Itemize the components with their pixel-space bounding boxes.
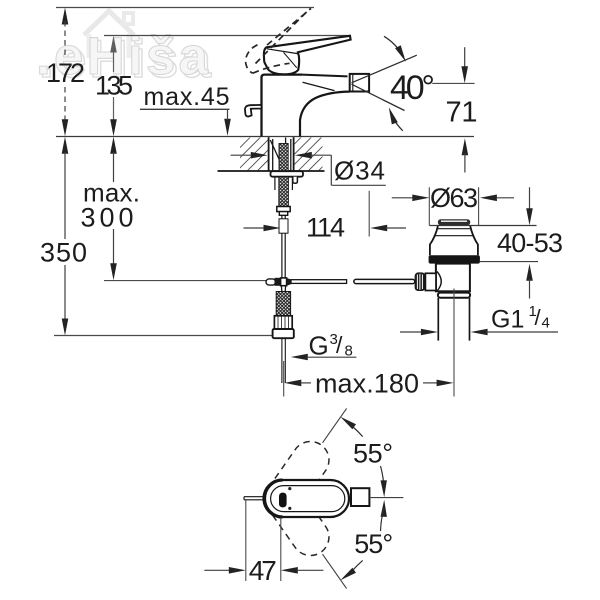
rod coupling sleeve [279, 219, 288, 233]
svg-text:300: 300 [81, 203, 134, 233]
extension/linkage reference line at pop-up rod level [104, 280, 266, 282]
extension line gasket bottom level [480, 261, 538, 263]
dimension 40-53 [529, 187, 531, 209]
svg-text:Ø63: Ø63 [430, 183, 478, 213]
svg-text:40°: 40° [390, 69, 435, 107]
top view: spout centerline [369, 497, 403, 499]
extension line faucet centre bottom [283, 361, 285, 397]
drain basin surface line [429, 225, 536, 227]
extension line: handle tip level [104, 35, 350, 37]
spout outlet [350, 74, 369, 92]
dimension 71 [432, 82, 474, 84]
drain plug cap [438, 219, 470, 225]
svg-text:55°: 55° [353, 438, 393, 468]
pop-up rod knob on body [245, 105, 262, 117]
mounting shank through deck [270, 138, 291, 171]
faucet body [262, 75, 303, 137]
drain flange Ø63 extension lines [428, 187, 430, 225]
rod joint [266, 279, 276, 285]
dimension max.180 [284, 380, 301, 387]
top view: dashed swing outline upper 55° [258, 434, 336, 524]
angle extension line upper 55° [323, 408, 347, 442]
svg-text:4: 4 [542, 315, 550, 332]
deck surface reference line [56, 136, 474, 138]
dimension 135 [110, 36, 117, 137]
angle extension line lower 55° [323, 554, 347, 588]
deck hole walls [268, 137, 270, 171]
deck hatching right [294, 138, 322, 171]
dimension max.300 [110, 137, 117, 281]
svg-text:G1: G1 [491, 306, 524, 334]
watermark logo eHiša [36, 11, 212, 89]
clamp bracket [425, 273, 436, 290]
svg-text:/: / [535, 305, 542, 330]
dimension 172 [62, 8, 69, 137]
angle 40° rays [352, 55, 417, 83]
drain tailpipe [437, 298, 439, 341]
svg-text:Ø34: Ø34 [334, 156, 385, 186]
top view: handle inner edge [271, 486, 345, 512]
pull rod upper section [281, 215, 283, 278]
escutcheon flange under deck [271, 171, 304, 177]
hose nut G 3/8 [273, 329, 294, 338]
linkage rod to drain [291, 280, 347, 284]
arc arrow lower 55° [381, 500, 387, 517]
deck hatching left [240, 138, 268, 171]
drain body bottom ring [438, 293, 470, 298]
joint lower stub [281, 286, 285, 291]
clamp knob [415, 272, 426, 291]
top view: handle body [265, 480, 349, 517]
svg-text:max.45: max.45 [144, 83, 230, 111]
ball joint socket arc [437, 272, 441, 292]
top view: spout block [351, 488, 369, 506]
extension line: raised handle top level [56, 7, 314, 9]
shank end nuts [277, 207, 290, 212]
dimension 47 [245, 501, 247, 582]
drain flange body [430, 226, 438, 255]
svg-text:172: 172 [46, 58, 85, 88]
svg-text:135: 135 [95, 71, 133, 101]
angle 40° arc arrows [384, 36, 403, 56]
top view: pop-up rod [244, 497, 265, 500]
lever handle dashed (raised position) [246, 8, 311, 73]
drain rubber gasket [429, 255, 480, 263]
top view: lever slot [279, 493, 287, 508]
svg-text:71: 71 [446, 96, 478, 128]
threaded shank below deck [274, 177, 276, 190]
svg-text:/: / [336, 332, 343, 358]
drain valve body [436, 264, 470, 292]
svg-text:114: 114 [306, 213, 345, 243]
label Ø63 with arrows [392, 197, 414, 199]
flange tab [293, 177, 298, 184]
dimension 350 [62, 137, 69, 336]
svg-text:40-53: 40-53 [497, 228, 563, 258]
drain centerline [453, 289, 455, 397]
extension line: 350 bottom [54, 335, 273, 337]
svg-text:55°: 55° [354, 529, 393, 559]
lever handle [264, 36, 351, 75]
arc arrow upper 55° [340, 417, 356, 429]
svg-text:max.180: max.180 [315, 368, 419, 398]
supply hose braided section [276, 292, 290, 316]
top view: screw dots [288, 487, 291, 490]
hose fitting [274, 316, 292, 329]
dimension 114 [244, 227, 265, 229]
supply pipe below nut [281, 338, 283, 383]
label Ø34 with leader [231, 154, 252, 156]
top view: pivot cap thick arc [264, 480, 283, 517]
deck slab bottom line [218, 170, 325, 172]
spout [300, 92, 350, 137]
svg-text:47: 47 [249, 555, 277, 586]
top view: dashed swing outline lower 55° [258, 473, 336, 563]
svg-text:350: 350 [40, 238, 87, 268]
svg-text:G: G [309, 331, 329, 361]
